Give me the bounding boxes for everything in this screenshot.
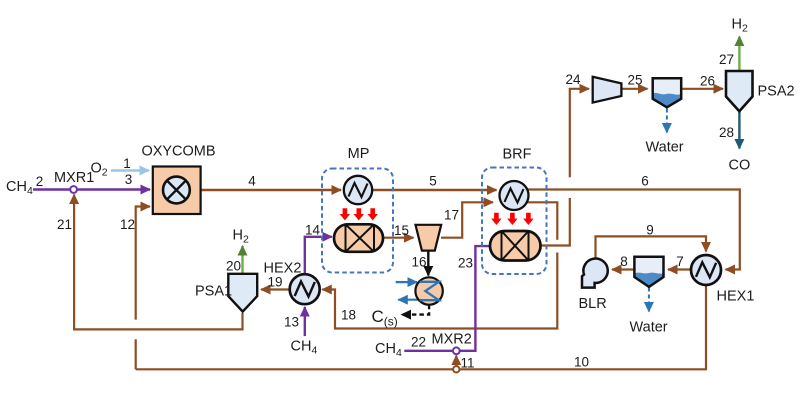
svg-text:10: 10 (574, 355, 589, 370)
svg-text:CH4: CH4 (6, 179, 33, 197)
svg-text:MP: MP (348, 146, 370, 162)
wire BRF reactor outlet segment lower (541, 198, 570, 246)
wire stream 11 junction to MXR2 (455, 356, 457, 367)
svg-text:CO: CO (729, 158, 751, 174)
compressor (trapezoid) top right (593, 77, 622, 103)
vessel PSA2 (726, 71, 753, 111)
wire stream 22 CH4 to MXR2 (404, 350, 452, 352)
wire stream 17 turbine to BRF (441, 202, 493, 237)
wire stream 21 + PSA1 tail (74, 195, 242, 330)
dashed box BRF (482, 168, 547, 275)
svg-text:8: 8 (620, 254, 628, 269)
svg-text:4: 4 (248, 174, 256, 189)
svg-text:Water: Water (646, 140, 684, 156)
svg-text:O2: O2 (91, 161, 108, 179)
cooler circle with blue coil (415, 277, 442, 304)
svg-text:7: 7 (676, 254, 684, 269)
vessel PSA1 (228, 274, 257, 312)
reactor BRF (stadium with X) (490, 231, 541, 261)
wire water out top drum (dashed) (666, 109, 668, 133)
turbine (trapezoid) after MP reactor (416, 225, 442, 251)
wire stream 13 CH4 into HEX2 (304, 307, 306, 336)
heat-exchanger circle HEX1 (691, 255, 721, 285)
svg-text:24: 24 (565, 72, 581, 87)
svg-text:BRF: BRF (503, 147, 532, 163)
svg-text:12: 12 (120, 217, 135, 232)
wire stream 8 drum to BLR (612, 268, 635, 270)
svg-text:MXR1: MXR1 (54, 170, 94, 186)
wire water out bottom drum (dashed) (648, 288, 650, 312)
flash drum bottom (634, 257, 663, 287)
svg-text:23: 23 (458, 256, 473, 271)
heat-exchanger circle MP (344, 176, 372, 204)
svg-text:CH4: CH4 (375, 341, 402, 359)
wire BRF hex outlet segment upper (527, 202, 557, 240)
svg-text:MXR2: MXR2 (432, 332, 472, 348)
svg-text:6: 6 (641, 174, 649, 189)
wire stream 10 from HEX1 bottom (136, 286, 706, 370)
svg-text:PSA1: PSA1 (195, 284, 232, 300)
blower BLR (582, 259, 608, 288)
svg-text:5: 5 (429, 174, 437, 189)
heat-exchanger circle HEX2 (290, 274, 320, 304)
svg-text:2: 2 (36, 174, 44, 189)
svg-text:3: 3 (125, 172, 133, 187)
wire stream 9 BLR to HEX1 (596, 236, 707, 257)
wire stream 28 CO out of PSA2 (738, 112, 740, 149)
svg-text:H2: H2 (233, 228, 249, 246)
svg-text:28: 28 (719, 125, 734, 140)
svg-text:9: 9 (646, 223, 654, 238)
svg-text:HEX1: HEX1 (717, 289, 755, 305)
svg-text:1: 1 (123, 156, 131, 171)
wire stream 1 O2 (111, 169, 149, 171)
wire stream 20 H2 out of PSA1 (241, 246, 243, 274)
svg-text:H2: H2 (732, 17, 748, 35)
wire stream 14 HEX2 to MP reactor (305, 237, 332, 274)
svg-text:BLR: BLR (579, 296, 607, 312)
reactor MP (stadium with X) (334, 224, 383, 252)
wire stream 19 HEX2 to PSA1 (261, 288, 290, 290)
node MXR2 (453, 347, 460, 354)
wire C(s) out of cooler (dashed) (402, 305, 430, 315)
svg-text:Water: Water (630, 320, 668, 336)
heat arrows MP (red) (340, 208, 378, 220)
wire stream 5 (373, 189, 497, 191)
heat arrows BRF (red) (491, 213, 533, 225)
svg-text:20: 20 (226, 259, 241, 274)
wire stream 7 HEX1 to drum (668, 268, 691, 270)
svg-text:15: 15 (394, 223, 409, 238)
wire stream 15 MP reactor to turbine (383, 237, 414, 239)
svg-text:27: 27 (719, 52, 734, 67)
svg-text:26: 26 (700, 74, 715, 89)
node junction on line 10 (453, 366, 459, 372)
wire stream 24 to compressor (570, 89, 589, 177)
wire stream 4 (201, 189, 341, 191)
wire stream 2+3 CH4 to OXYCOMB (33, 188, 150, 190)
wire stream 26 (682, 88, 724, 90)
svg-text:13: 13 (284, 315, 299, 330)
node MXR1 (70, 186, 77, 193)
dashed box MP (322, 169, 393, 273)
wire stream 6 to HEX1 (527, 190, 740, 270)
wire stream 27 H2 out of PSA2 (738, 37, 740, 71)
unit OXYCOMB box (153, 167, 201, 215)
svg-text:18: 18 (341, 308, 356, 323)
svg-text:11: 11 (460, 356, 474, 371)
wire stream 23 MXR2 to BRF reactor (460, 246, 490, 351)
svg-text:21: 21 (57, 217, 72, 232)
wire stream 16 turbine to cooler (427, 251, 429, 276)
svg-text:19: 19 (267, 275, 282, 290)
svg-text:PSA2: PSA2 (758, 84, 795, 100)
svg-text:22: 22 (411, 335, 426, 350)
wire stream 18 to HEX2 (322, 253, 557, 329)
wire stream 12 lower segment (135, 339, 137, 369)
svg-text:CH4: CH4 (291, 339, 318, 357)
wire stream 12 upper segment into OXYCOMB (136, 207, 150, 320)
svg-text:17: 17 (444, 208, 459, 223)
wire cooling water out (398, 299, 420, 301)
svg-text:16: 16 (411, 255, 426, 270)
wire cooling water in (396, 281, 417, 283)
wire stream 25 (622, 88, 648, 90)
svg-text:14: 14 (305, 223, 321, 238)
heat-exchanger circle BRF (500, 181, 529, 210)
svg-text:C(s): C(s) (372, 307, 398, 329)
svg-text:25: 25 (627, 73, 642, 88)
svg-text:OXYCOMB: OXYCOMB (141, 144, 215, 160)
flash drum top (653, 78, 682, 107)
